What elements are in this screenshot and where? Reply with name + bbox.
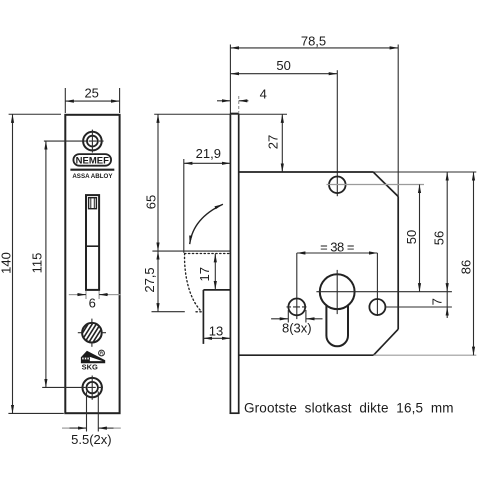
case right extension line above (78.5): [397, 45, 399, 197]
euro cylinder profile stem: [326, 305, 348, 346]
svg-text:= 38 =: = 38 =: [320, 239, 354, 254]
knurled circle tick bottom: [91, 343, 93, 347]
top screw hole centerline horizontal dashes: [82, 140, 104, 142]
dim 27 dimension line: [281, 114, 283, 172]
faceplate strip left extension line above: [229, 45, 231, 114]
svg-text:50: 50: [404, 230, 419, 244]
euro cylinder profile circle: [320, 274, 355, 309]
dim 4 tail left: [217, 100, 230, 102]
SKG pictogram slit ticks: [84, 356, 94, 359]
dim 27.5 dimension line: [157, 251, 159, 312]
dim 5.5 tail gray left: [62, 427, 70, 429]
latch bolt head inner rectangle: [89, 198, 97, 209]
svg-text:5.5(2x): 5.5(2x): [71, 432, 111, 447]
dim 21.9 extension line left vertical: [183, 159, 185, 253]
dim 4 extension dashed right: [238, 96, 240, 113]
svg-text:27,5: 27,5: [142, 267, 157, 292]
right fixing hole centerline horizontal: [385, 306, 452, 308]
dim 8 arrow right: [306, 318, 323, 320]
lock case top right chamfer: [374, 172, 399, 196]
knurled circle tick right: [102, 332, 106, 334]
extension line at hook bottom level: [152, 311, 185, 313]
bolt housing step left edge: [202, 290, 204, 344]
dim 13 dimension line: [203, 337, 230, 339]
dim 38 extension vertical left: [296, 253, 298, 319]
svg-text:86: 86: [459, 260, 474, 274]
dim 6 arrow left: [77, 294, 86, 296]
dim 7 arrow bottom: [446, 307, 448, 318]
latch bolt head inner line left: [90, 198, 92, 209]
left fixing hole centerline dashes: [287, 306, 308, 308]
dim 6 extension line right: [98, 291, 100, 299]
dim 5.5 arrow left: [70, 427, 87, 429]
top screw hole outer circle: [83, 132, 102, 151]
dim 4 tail right: [239, 100, 249, 102]
faceplate front view outline: [65, 115, 119, 413]
latch bolt head inner line right: [93, 198, 95, 209]
dim 50 top extension line right: [336, 70, 338, 196]
NEMEF logo stadium outline: [73, 154, 111, 166]
top hole center line horizontal gray: [327, 184, 425, 186]
knurled circle tick left: [78, 332, 82, 334]
dim 56 dimension line: [446, 172, 448, 292]
dim 5.5 arrow right: [98, 427, 113, 429]
faceplate strip left edge: [229, 114, 231, 414]
dim 140 dimension line: [12, 114, 14, 413]
svg-text:25: 25: [84, 86, 98, 101]
svg-text:27: 27: [266, 135, 281, 149]
dim 38 extension vertical right: [376, 253, 378, 316]
svg-text:SKG: SKG: [82, 362, 98, 371]
bolt housing step top edge: [203, 289, 230, 291]
svg-text:13: 13: [209, 324, 223, 339]
svg-text:R: R: [100, 351, 103, 356]
dim 6 extension line left: [85, 291, 87, 299]
svg-text:ASSA ABLOY: ASSA ABLOY: [72, 173, 113, 180]
registered trademark symbol: [99, 350, 105, 356]
faceplate strip bottom edge: [230, 412, 240, 414]
ASSA ABLOY underline bar: [70, 169, 114, 171]
dim 25 extension line right: [119, 88, 121, 113]
SKG certification mark pictogram: [81, 351, 105, 364]
svg-text:Grootste slotkast dikte 16,5 m: Grootste slotkast dikte 16,5 mm: [244, 401, 454, 416]
bottom screw hole outer circle: [83, 378, 102, 397]
dim 17 dimension line: [214, 254, 216, 290]
dim 6 tail gray left: [69, 294, 77, 296]
faceplate strip right edge: [238, 114, 240, 414]
svg-text:115: 115: [30, 253, 45, 274]
svg-text:7: 7: [430, 298, 445, 305]
top screw hole inner circle: [87, 136, 98, 147]
hook bolt top edge dotted: [185, 253, 231, 255]
right fixing hole circle: [369, 299, 385, 315]
latch slot divider line: [86, 245, 99, 247]
svg-text:65: 65: [143, 195, 158, 209]
knurled circle tick top: [91, 319, 93, 323]
dim 25 extension line left: [64, 88, 66, 113]
dim 38 dimension line: [297, 252, 378, 254]
svg-text:6: 6: [89, 295, 96, 310]
dim 78.5 dimension line: [230, 47, 398, 49]
svg-text:4: 4: [260, 87, 267, 102]
dim 8 extension vertical left: [287, 310, 289, 323]
svg-text:8(3x): 8(3x): [282, 321, 312, 336]
dim 5.5 tail gray right: [114, 427, 121, 429]
dim 140 extension line bottom: [8, 412, 63, 414]
dim 115 extension line bottom: [42, 386, 80, 388]
bottom screw hole centerline vertical: [91, 376, 93, 400]
dim 7 connector line: [446, 292, 448, 307]
knurled circle hatching: [75, 321, 118, 344]
bottom screw hole inner circle: [87, 382, 98, 393]
lock case bottom right chamfer: [374, 329, 399, 355]
hook swing curved arrow: [190, 204, 223, 244]
svg-text:NEMEF: NEMEF: [76, 155, 109, 166]
svg-text:17: 17: [197, 267, 212, 281]
dim 8 extension vertical right: [305, 310, 307, 323]
lock case bottom edge: [239, 354, 374, 356]
extension line at hook top level: [152, 250, 230, 252]
lock case top edge extension right: [374, 171, 477, 173]
dim 25 dimension line: [65, 100, 119, 102]
svg-text:21,9: 21,9: [196, 146, 221, 161]
euro cylinder centerline vertical: [336, 270, 338, 314]
lock case top edge: [239, 171, 374, 173]
lock case right edge: [397, 197, 399, 330]
SKG pictogram white slit with ticks: [82, 358, 92, 360]
hook bolt curved nose dotted arc: [185, 254, 202, 312]
dim 50 right dimension line: [419, 185, 421, 292]
bottom screw hole centerline horizontal dashes: [81, 386, 105, 388]
dim 21.9 dimension line: [184, 162, 231, 164]
dim 140 extension line top: [9, 113, 61, 115]
dim 115 extension line top: [44, 140, 82, 142]
extension line at strip top level: [154, 113, 287, 115]
dim 115 dimension line: [45, 141, 47, 387]
svg-text:78,5: 78,5: [301, 34, 326, 49]
svg-text:50: 50: [276, 58, 290, 73]
svg-text:140: 140: [0, 252, 13, 274]
dim 65 dimension line: [157, 114, 159, 251]
dim 6 tail gray right: [108, 294, 121, 296]
dim 5.5 extension line right: [97, 392, 99, 432]
dim 6 arrow right: [99, 294, 108, 296]
lock case bottom edge extension right gray: [374, 354, 477, 356]
faceplate strip top edge: [230, 113, 238, 115]
left fixing hole circle: [288, 299, 305, 316]
knurled circle: [82, 323, 102, 343]
top fixing hole circle: [329, 177, 346, 194]
svg-text:56: 56: [431, 231, 446, 245]
hook bolt bottom edge dotted: [196, 311, 203, 313]
euro cylinder centerline horizontal: [316, 291, 452, 293]
dim 50 top dimension line: [230, 73, 337, 75]
dim 5.5 extension line left: [86, 392, 88, 432]
SKG pictogram white wedge under roof: [90, 357, 103, 361]
dim 8 arrow left: [271, 318, 288, 320]
top screw hole centerline vertical: [91, 130, 93, 153]
latch slot outer rectangle: [86, 195, 99, 290]
dim 86 dimension line: [473, 172, 475, 355]
